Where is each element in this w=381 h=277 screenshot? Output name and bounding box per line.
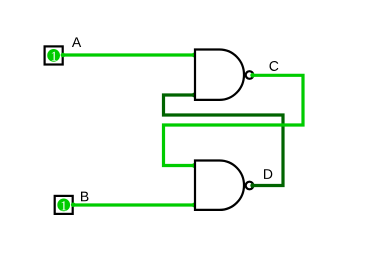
node: gate1 input pin dot (feedback D) (192, 93, 197, 98)
wire C feedback (gate1 output to gate2 upper input, bright green = logic 1) (164, 75, 304, 165)
label D (264, 169, 272, 179)
NAND gate U2 inversion bubble (246, 182, 254, 190)
switch A button (on) (47, 49, 60, 62)
node: gate2 output dot D (250, 183, 255, 188)
node: switch A output dot (61, 53, 66, 58)
label C (270, 61, 279, 71)
wire A (switch A to gate1 upper input, bright green = logic 1) (63, 53, 195, 56)
wire B (switch B to gate2 lower input, bright green = logic 1) (73, 203, 195, 206)
label B (81, 192, 88, 202)
switch A box (45, 46, 63, 64)
node: gate1 input pin dot (A) (192, 53, 197, 58)
switch A value "1" (52, 52, 57, 61)
switch B button (on) (57, 199, 70, 212)
label A (72, 37, 81, 47)
node: gate1 output dot C (250, 73, 255, 78)
NAND gate U1 inversion bubble (246, 71, 254, 79)
node: gate2 input pin dot (feedback C) (192, 163, 197, 168)
node: gate2 input pin dot (B) (192, 203, 197, 208)
switch B box (55, 196, 73, 214)
wire D feedback (gate2 output to gate1 lower input, dark green = logic 0) (164, 95, 284, 186)
switch B value "1" (62, 201, 67, 210)
NAND gate U1 body (195, 50, 244, 100)
node: switch B output dot (71, 203, 76, 208)
NAND gate U2 body (195, 161, 244, 210)
